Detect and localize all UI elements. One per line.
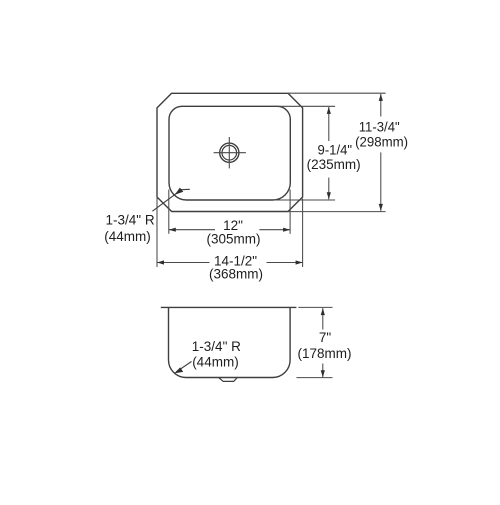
svg-text:(305mm): (305mm) <box>206 231 260 246</box>
7 inch dimension line <box>322 308 324 329</box>
14-1/2 inch dimension line <box>157 262 210 264</box>
9-1/4 inch dimension extension lines <box>277 105 335 107</box>
svg-text:1-3/4" R: 1-3/4" R <box>192 339 241 354</box>
svg-text:(235mm): (235mm) <box>307 157 361 172</box>
11-3/4 inch dimension extension lines <box>288 92 386 94</box>
elevation rim line <box>161 306 297 308</box>
14-1/2 inch dimension extension lines <box>156 198 158 267</box>
sink outer rim (top view) <box>157 93 303 211</box>
radius leader arrowhead (top view) <box>175 188 184 195</box>
svg-text:(298mm): (298mm) <box>355 135 408 150</box>
7 inch dimension extension lines <box>298 306 332 308</box>
drain inner circle <box>222 145 237 160</box>
drain crosshair horizontal <box>214 152 246 154</box>
radius leader (elevation) <box>177 362 192 372</box>
svg-text:(178mm): (178mm) <box>297 346 351 361</box>
12 inch dimension extension lines <box>168 190 170 234</box>
sink bowl inner outline (top view) <box>169 106 290 200</box>
12 inch dimension line <box>169 229 215 231</box>
elevation bowl outline <box>169 307 291 377</box>
elevation drain bump <box>219 378 238 382</box>
11-3/4 inch dimension line <box>380 94 382 117</box>
svg-text:7": 7" <box>319 330 332 345</box>
radius leader (top view) <box>152 189 189 211</box>
svg-text:11-3/4": 11-3/4" <box>359 119 400 134</box>
svg-text:(368mm): (368mm) <box>209 267 263 282</box>
drain crosshair vertical <box>228 137 230 168</box>
svg-text:1-3/4" R: 1-3/4" R <box>106 212 155 227</box>
svg-text:(44mm): (44mm) <box>192 354 239 369</box>
drain outer circle <box>220 143 239 162</box>
svg-text:(44mm): (44mm) <box>104 229 151 244</box>
svg-text:9-1/4": 9-1/4" <box>318 142 353 157</box>
9-1/4 inch dimension line <box>328 107 330 141</box>
radius leader arrowhead (elevation) <box>174 367 183 373</box>
